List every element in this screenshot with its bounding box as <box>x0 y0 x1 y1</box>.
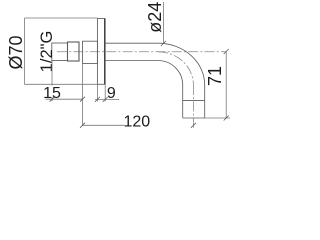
dimension 120: dimension line (left segment only) <box>83 124 125 126</box>
wire: dashed centerline bend arc <box>158 52 193 85</box>
down tube left edge <box>182 85 184 118</box>
tube Ø24 outer (top) edge with bend <box>105 43 205 85</box>
dimension 120: end ticks <box>80 123 196 128</box>
dimension 15: end ticks <box>50 97 86 102</box>
dimension 9: dimension line <box>95 99 119 101</box>
wall flange front face thick edge <box>104 19 106 85</box>
dimension 71: bottom extension line <box>205 117 230 119</box>
dimension 15: right extension line (shared with 120) <box>82 64 84 125</box>
down tube right edge <box>204 85 206 118</box>
dimension Ø70: top extension line <box>25 17 98 19</box>
svg-text:15: 15 <box>43 85 61 102</box>
svg-text:ø24: ø24 <box>145 2 165 33</box>
dimension 9: left extension line <box>96 84 98 101</box>
svg-text:1/2"G: 1/2"G <box>38 31 56 73</box>
wire: dashed tube centerline horizontal <box>57 51 226 53</box>
dimension Ø70: bottom extension line <box>25 83 98 85</box>
dimension 9: end ticks <box>95 97 108 102</box>
dimension Ø70: dimension line <box>24 18 26 84</box>
dimension 15: left extension line <box>51 61 53 101</box>
svg-text:71: 71 <box>205 66 225 86</box>
dimension 71: end ticks <box>224 49 229 121</box>
thread nipple 1/2"G (rect A) <box>52 43 68 61</box>
dimension 71: dimension line <box>225 52 227 119</box>
dimension 15: dimension line <box>46 98 83 100</box>
dimension ø24: leader extension line <box>163 2 165 43</box>
hex nut section (rect B) <box>68 42 80 61</box>
wire: dashed centerline vertical at spout outlet <box>192 85 194 130</box>
dimension 15: label text <box>45 86 60 98</box>
svg-text:Ø70: Ø70 <box>6 35 26 69</box>
spout tip bottom edge <box>183 117 205 119</box>
dimension 9: right extension line <box>104 84 106 101</box>
dimension ø24: contact tick <box>161 41 166 46</box>
spout end joint line <box>183 99 205 101</box>
hub section (rect C) <box>83 41 98 63</box>
svg-text:120: 120 <box>123 114 150 131</box>
tube Ø24 inner (bottom) edge with bend <box>105 61 183 86</box>
svg-text:9: 9 <box>107 85 116 102</box>
wall flange Ø70 (side view bar) <box>97 19 104 85</box>
